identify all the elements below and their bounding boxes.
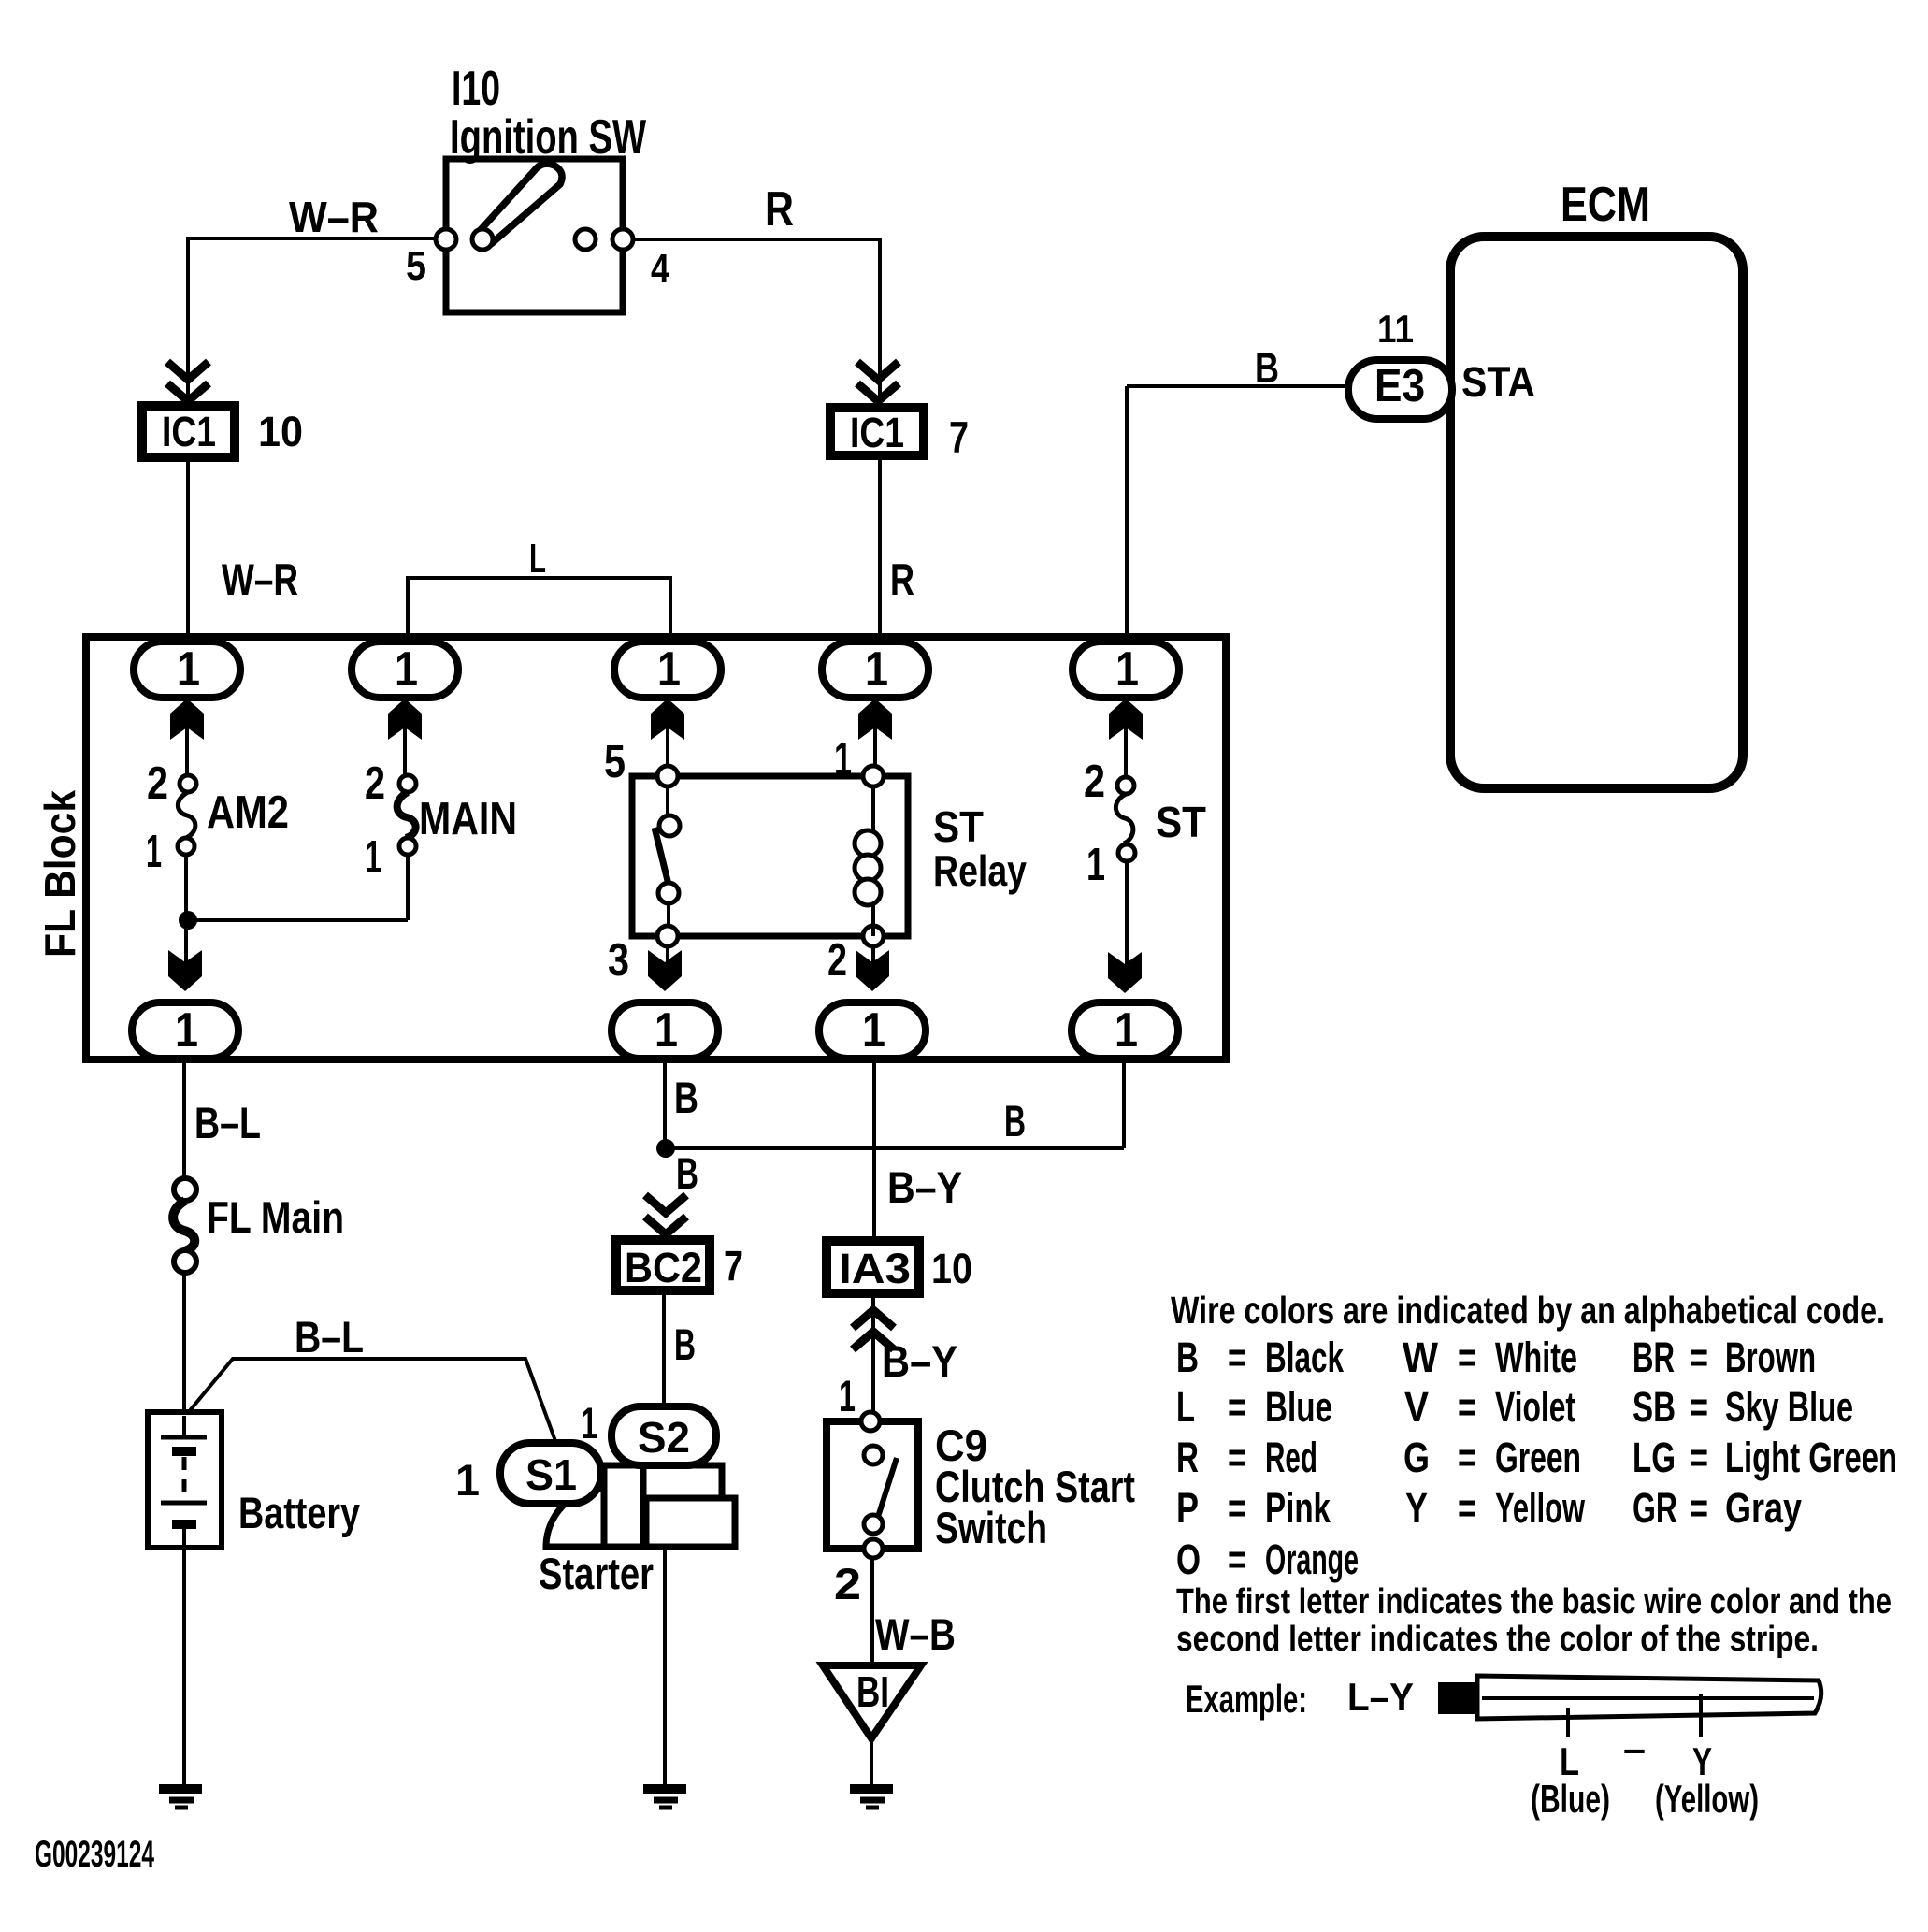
svg-text:=: = [1458, 1434, 1476, 1481]
svg-text:BR: BR [1633, 1334, 1675, 1381]
svg-text:IC1: IC1 [850, 409, 904, 456]
svg-text:LG: LG [1633, 1434, 1676, 1481]
svg-text:ST: ST [933, 802, 984, 851]
svg-text:GR: GR [1633, 1484, 1677, 1532]
svg-text:10: 10 [931, 1245, 972, 1292]
svg-text:Green: Green [1495, 1434, 1581, 1481]
svg-text:1: 1 [175, 1003, 198, 1058]
svg-text:–: – [1623, 1726, 1646, 1770]
svg-text:Gray: Gray [1725, 1484, 1802, 1532]
svg-text:=: = [1458, 1334, 1476, 1381]
svg-text:1: 1 [581, 1398, 597, 1448]
svg-text:1: 1 [839, 1371, 856, 1420]
svg-text:Brown: Brown [1725, 1334, 1816, 1381]
svg-text:5: 5 [604, 737, 626, 787]
svg-text:V: V [1404, 1383, 1429, 1431]
svg-text:Red: Red [1265, 1434, 1317, 1481]
svg-text:B–Y: B–Y [882, 1336, 957, 1386]
svg-text:7: 7 [724, 1242, 743, 1290]
svg-text:2: 2 [1084, 757, 1105, 807]
svg-text:B: B [674, 1319, 696, 1369]
svg-text:2: 2 [827, 935, 847, 986]
svg-text:R: R [1176, 1434, 1199, 1481]
svg-text:=: = [1690, 1334, 1708, 1381]
svg-text:BI: BI [856, 1667, 889, 1716]
svg-text:2: 2 [147, 758, 168, 809]
svg-text:SB: SB [1633, 1383, 1676, 1431]
svg-text:7: 7 [949, 412, 969, 462]
svg-text:Yellow: Yellow [1495, 1484, 1586, 1532]
svg-text:S1: S1 [525, 1450, 577, 1499]
svg-text:R: R [765, 182, 794, 237]
svg-text:IC1: IC1 [162, 408, 216, 455]
svg-text:B: B [1255, 344, 1279, 392]
svg-text:1: 1 [395, 642, 418, 697]
svg-text:=: = [1228, 1434, 1246, 1481]
svg-text:Switch: Switch [935, 1503, 1047, 1552]
svg-text:AM2: AM2 [207, 787, 289, 838]
svg-text:5: 5 [406, 243, 426, 289]
svg-text:B: B [676, 1148, 698, 1198]
svg-text:G00239124: G00239124 [35, 1834, 154, 1875]
svg-text:Y: Y [1405, 1484, 1428, 1532]
svg-text:W–R: W–R [289, 193, 379, 241]
svg-text:Battery: Battery [238, 1488, 360, 1537]
svg-text:=: = [1690, 1383, 1708, 1431]
svg-text:=: = [1458, 1484, 1476, 1532]
svg-text:11: 11 [1377, 307, 1414, 351]
svg-text:FL Main: FL Main [207, 1192, 344, 1242]
svg-text:FL Block: FL Block [36, 790, 84, 958]
svg-text:BC2: BC2 [625, 1244, 702, 1291]
svg-text:1: 1 [657, 642, 681, 697]
svg-text:L: L [529, 536, 546, 582]
svg-text:R: R [890, 555, 914, 604]
svg-text:second letter indicates the co: second letter indicates the color of the… [1176, 1620, 1819, 1659]
svg-text:Sky Blue: Sky Blue [1725, 1383, 1853, 1431]
svg-text:1: 1 [1115, 642, 1139, 697]
svg-text:2: 2 [834, 1559, 861, 1608]
svg-text:E3: E3 [1374, 361, 1425, 411]
svg-text:B–L: B–L [194, 1098, 261, 1147]
svg-text:1: 1 [146, 827, 162, 877]
svg-text:1: 1 [1086, 840, 1105, 890]
svg-text:ST: ST [1156, 798, 1206, 846]
svg-text:L: L [1176, 1383, 1195, 1431]
svg-text:B–L: B–L [295, 1312, 364, 1362]
svg-text:Orange: Orange [1265, 1536, 1359, 1583]
svg-text:1: 1 [455, 1455, 480, 1505]
svg-text:=: = [1228, 1536, 1246, 1583]
svg-text:Violet: Violet [1495, 1383, 1575, 1431]
svg-text:(Yellow): (Yellow) [1655, 1777, 1759, 1821]
svg-text:Relay: Relay [933, 846, 1027, 895]
svg-text:=: = [1690, 1484, 1708, 1532]
svg-text:ECM: ECM [1561, 178, 1650, 232]
svg-text:3: 3 [608, 935, 629, 986]
svg-text:S2: S2 [638, 1413, 690, 1462]
svg-text:STA: STA [1461, 358, 1535, 406]
svg-text:B–Y: B–Y [887, 1162, 962, 1212]
svg-text:B: B [1004, 1096, 1026, 1146]
svg-text:2: 2 [365, 758, 385, 809]
svg-text:Pink: Pink [1265, 1484, 1331, 1532]
svg-text:IA3: IA3 [839, 1245, 911, 1292]
svg-text:Starter: Starter [539, 1549, 654, 1598]
svg-text:=: = [1228, 1334, 1246, 1381]
svg-text:The first letter indicates the: The first letter indicates the basic wir… [1176, 1582, 1892, 1622]
svg-text:1: 1 [865, 642, 888, 697]
svg-text:B: B [1176, 1334, 1199, 1381]
svg-text:I10: I10 [452, 62, 500, 116]
svg-text:=: = [1228, 1484, 1246, 1532]
svg-text:L–Y: L–Y [1347, 1675, 1414, 1719]
svg-text:1: 1 [655, 1003, 678, 1058]
svg-text:1: 1 [862, 1003, 885, 1058]
svg-text:=: = [1458, 1383, 1476, 1431]
svg-text:Example:: Example: [1186, 1677, 1307, 1721]
svg-text:(Blue): (Blue) [1531, 1777, 1610, 1821]
svg-text:4: 4 [651, 246, 669, 292]
svg-text:=: = [1690, 1434, 1708, 1481]
svg-text:Blue: Blue [1265, 1383, 1332, 1431]
svg-text:G: G [1403, 1434, 1430, 1481]
svg-text:White: White [1495, 1334, 1577, 1381]
svg-text:P: P [1176, 1484, 1199, 1532]
svg-text:W: W [1403, 1334, 1438, 1381]
svg-text:10: 10 [258, 408, 303, 455]
svg-text:Black: Black [1265, 1334, 1345, 1381]
svg-text:1: 1 [177, 642, 200, 697]
svg-text:O: O [1176, 1536, 1201, 1583]
svg-text:Wire colors are indicated by a: Wire colors are indicated by an alphabet… [1171, 1289, 1885, 1332]
svg-text:Light Green: Light Green [1725, 1434, 1897, 1481]
svg-text:MAIN: MAIN [419, 794, 517, 844]
svg-text:W–B: W–B [875, 1609, 956, 1659]
svg-text:1: 1 [365, 832, 381, 883]
svg-text:B: B [674, 1073, 698, 1122]
svg-text:W–R: W–R [222, 555, 298, 604]
svg-text:1: 1 [834, 734, 852, 785]
svg-text:=: = [1228, 1383, 1246, 1431]
svg-text:1: 1 [1115, 1003, 1138, 1058]
